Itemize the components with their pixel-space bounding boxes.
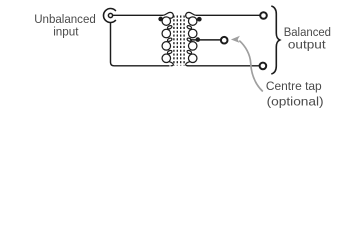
phase dot primary: [158, 17, 163, 22]
junction dot centre tap: [196, 37, 201, 42]
connector J1 unbalanced input: [103, 9, 115, 23]
wire left vertical and bottom-left: [111, 23, 170, 66]
wire bottom-right: [187, 65, 259, 67]
transformer core: [174, 16, 184, 66]
brace balanced output: [271, 6, 280, 74]
svg-text:output: output: [288, 38, 326, 52]
svg-text:Centre tap: Centre tap: [266, 79, 322, 93]
terminal centre tap: [221, 37, 228, 44]
wire top-right: [196, 14, 260, 16]
terminal output bottom: [260, 63, 267, 70]
label balanced output: [284, 25, 331, 52]
svg-text:input: input: [53, 25, 79, 39]
centre tap wire: [190, 39, 221, 41]
phase dot secondary: [197, 17, 202, 22]
terminal output top: [260, 12, 267, 19]
transformer T1 primary winding: [162, 12, 173, 65]
transformer T1 secondary winding: [186, 12, 197, 65]
wire top-left: [113, 14, 163, 16]
arrow to centre tap: [231, 36, 240, 43]
svg-text:Balanced: Balanced: [284, 25, 331, 39]
label centre tap: [266, 79, 324, 109]
label unbalanced input: [34, 12, 96, 39]
svg-text:(optional): (optional): [267, 95, 324, 109]
